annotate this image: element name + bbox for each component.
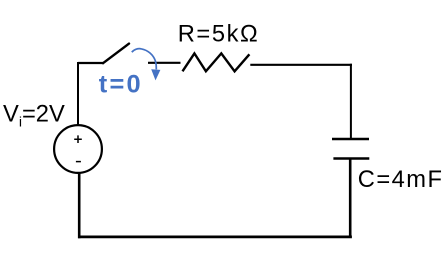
minus sign inside source: [76, 161, 81, 163]
svg-text:Vi=2V: Vi=2V: [3, 101, 65, 130]
switch SW1 open blade: [103, 44, 129, 64]
wire resistor to top-right corner: [250, 64, 352, 66]
wire from switch throw to resistor: [148, 62, 181, 64]
wire left lower vertical from source to bottom: [78, 173, 81, 238]
wire left upper vertical from corner to source: [77, 62, 79, 126]
wire right vertical down to capacitor top plate: [350, 64, 352, 139]
svg-text:t=0: t=0: [99, 71, 143, 99]
svg-text:R=5kΩ: R=5kΩ: [178, 22, 260, 48]
plus sign inside source: [74, 135, 82, 143]
wire capacitor bottom lead: [349, 159, 352, 238]
voltage source V1 circle: [54, 125, 102, 173]
wire top-left horizontal from corner to switch pole: [78, 62, 104, 64]
wire bottom horizontal: [78, 235, 352, 238]
svg-text:C=4mF: C=4mF: [358, 167, 444, 193]
capacitor C1 top plate: [332, 138, 369, 140]
switch arrow head: [151, 69, 160, 80]
resistor R1 zigzag: [183, 53, 250, 71]
capacitor C1 bottom plate: [333, 157, 369, 159]
switch closing arrow (blue arc): [132, 49, 157, 70]
